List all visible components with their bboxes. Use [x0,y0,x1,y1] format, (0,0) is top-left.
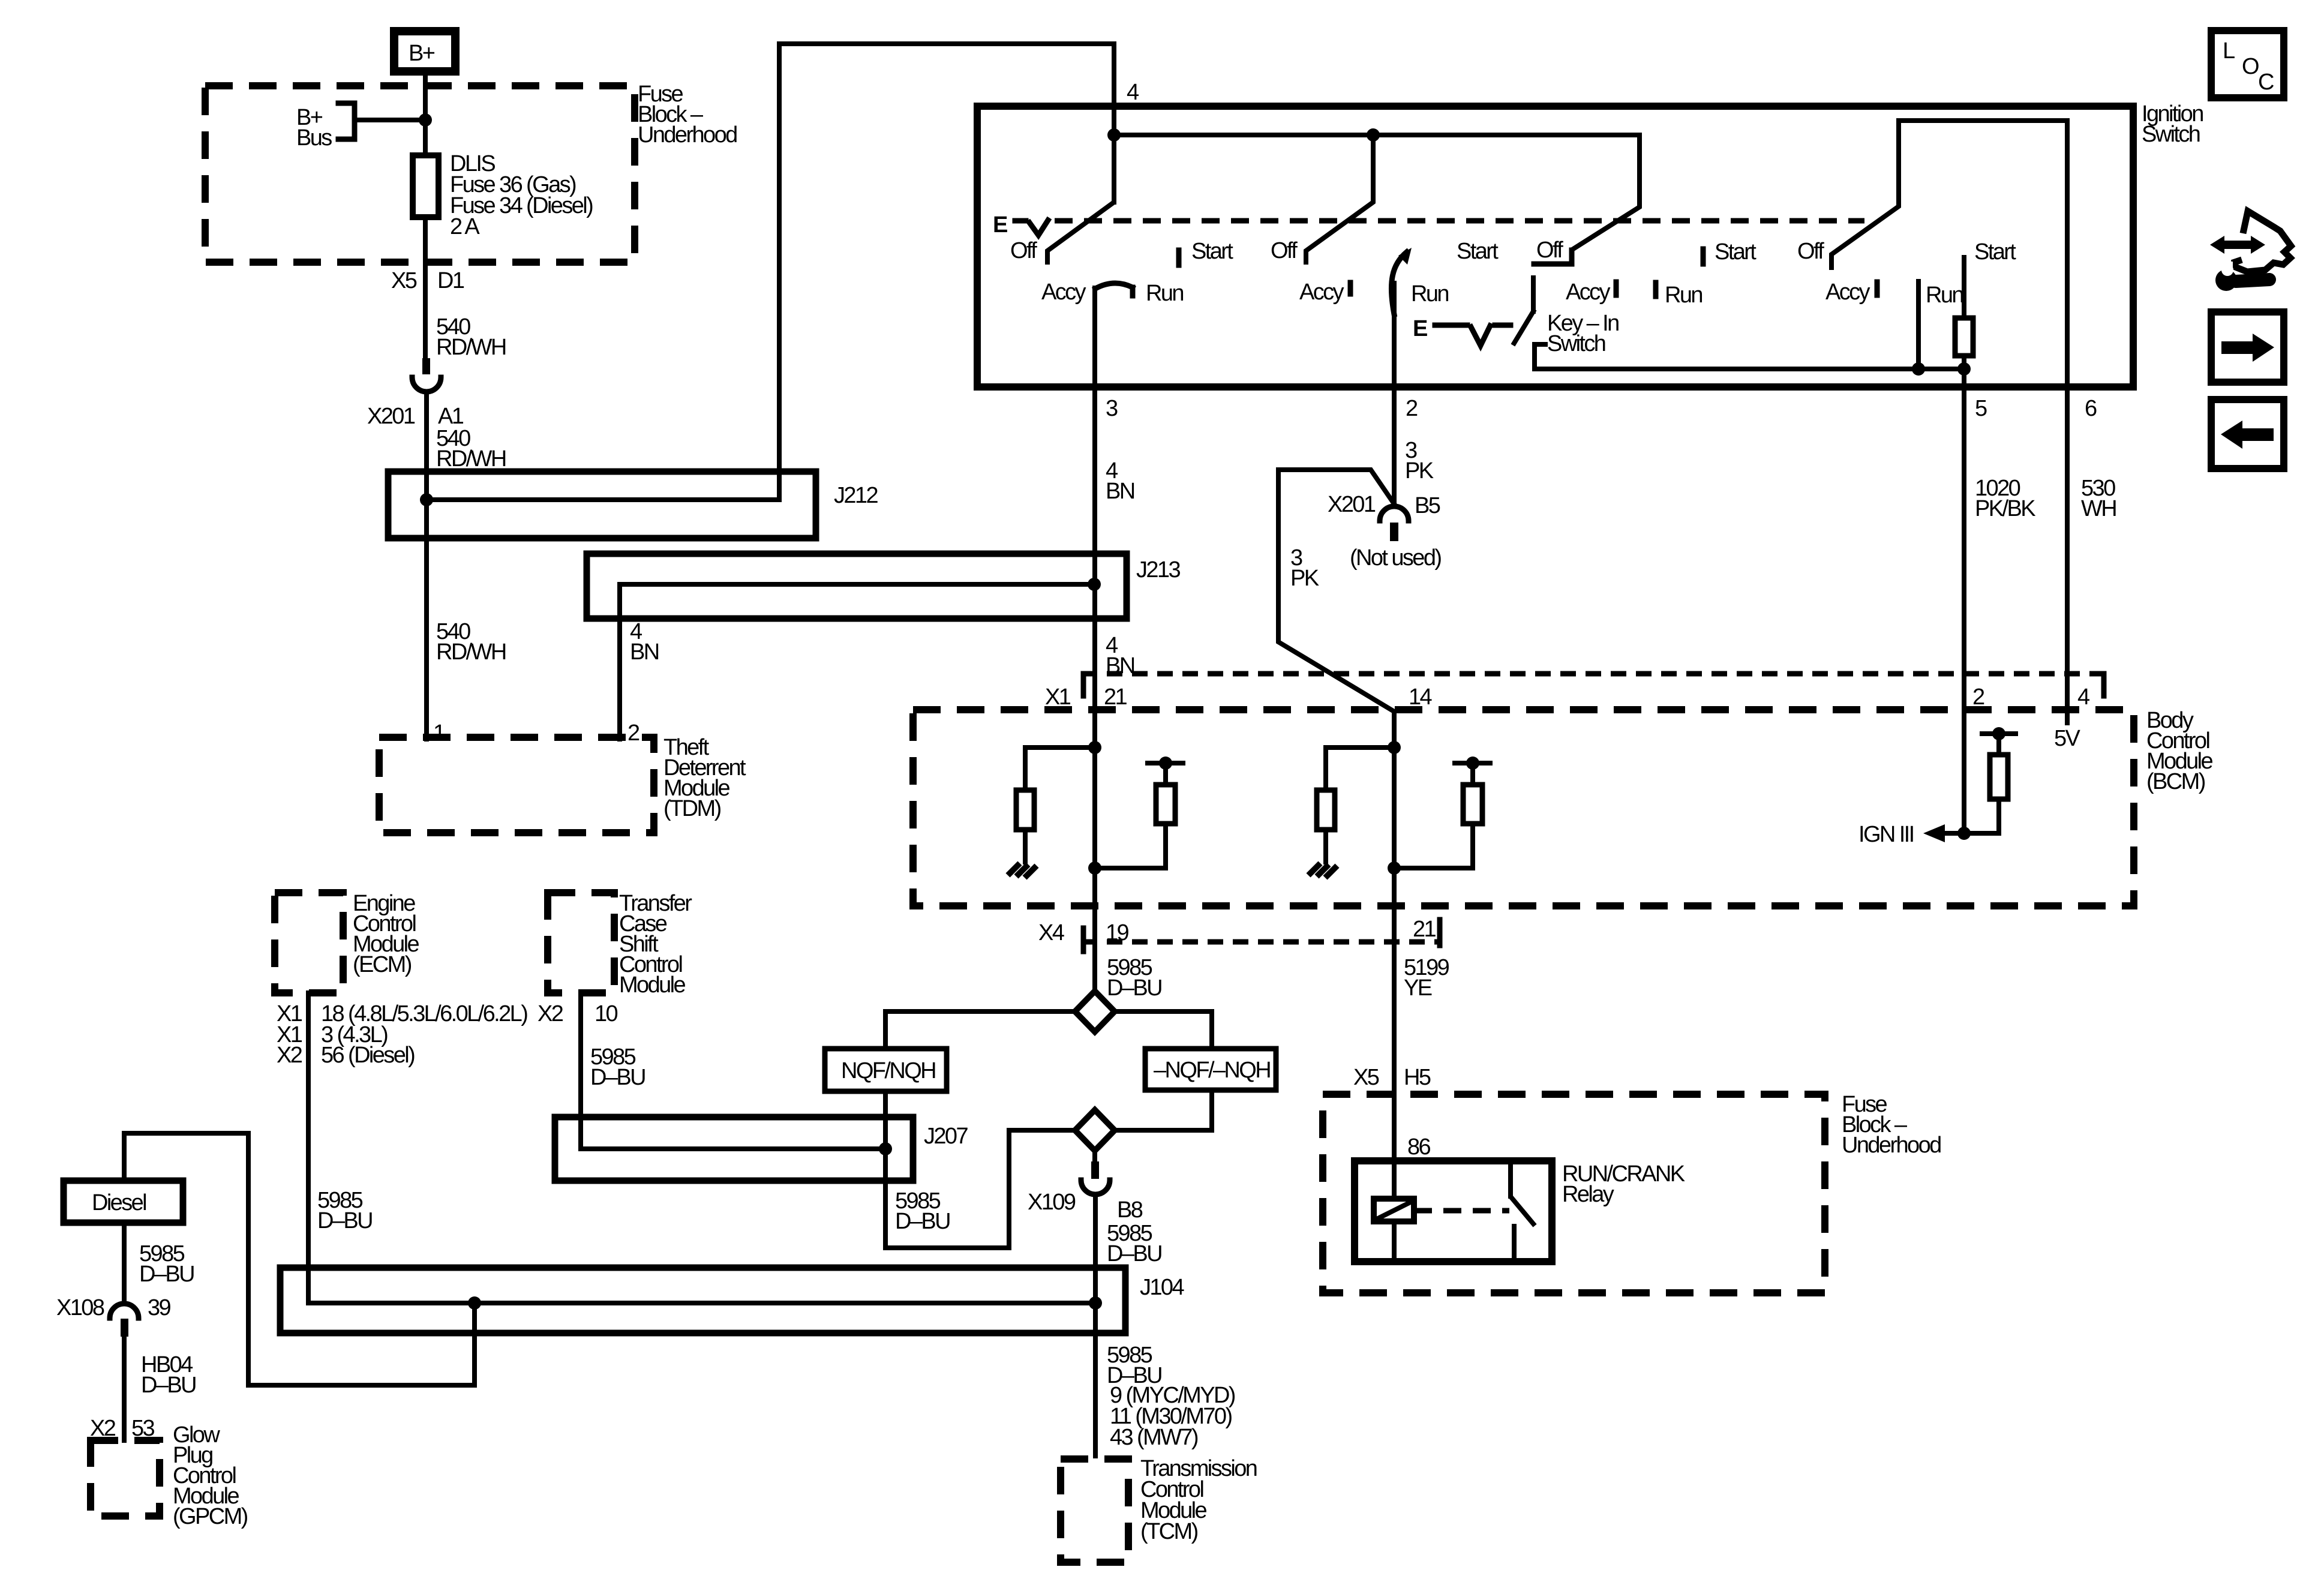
transmission control module TCM box (dashed) [1061,1456,1257,1562]
bank3 labels [1536,238,1756,308]
svg-text:Off: Off [1797,239,1824,264]
splice pack J212 [388,472,878,538]
wire resistor to junction [1962,356,1966,369]
wire diamond2 down to X109 [1092,1151,1097,1161]
svg-text:Off: Off [1010,238,1037,263]
switch bank 3 wiper [1574,135,1640,248]
node run junction [1912,362,1925,376]
svg-text:1: 1 [433,721,445,746]
wire label 540 RD/WH [436,314,506,360]
splice pack J207 [555,1117,968,1181]
internal rail bar (BCM 21) [1148,761,1183,766]
svg-text:3: 3 [1106,396,1118,421]
bank3 Accy contact tick [1614,282,1619,295]
bank3 Run contact tick [1653,283,1659,296]
wire to pull-down resistor [1025,748,1095,790]
label Fuse Block - Underhood [638,82,737,148]
TCM pin labels [1110,1383,1235,1450]
svg-text:E: E [993,212,1007,238]
node rail junction [1159,757,1172,770]
node IGN III junction [1957,827,1971,840]
svg-text:IGN III: IGN III [1858,822,1914,847]
svg-text:PK/BK: PK/BK [1975,496,2035,521]
svg-text:B+: B+ [409,41,435,66]
resistor BCM IGN III [1990,755,2008,799]
wire label 1020 PK/BK [1975,476,2035,521]
node J207 junction [879,1142,892,1155]
wire label 5199 YE [1404,955,1449,1001]
svg-text:X108: X108 [56,1295,104,1320]
wire B+ down to fuse [423,75,428,155]
svg-text:Accy: Accy [1566,280,1611,305]
ignition switch box [977,101,2203,387]
svg-text:2: 2 [627,721,639,746]
svg-text:H5: H5 [1404,1065,1431,1090]
switch bank 2 wiper [1306,135,1373,262]
wire resistor to lower junction [1095,824,1166,868]
bank1 labels [1010,238,1233,306]
wire label 3 PK [1405,438,1434,484]
resistor BCM 21 pull-down [1016,790,1034,830]
mech link E bank1 [993,212,1864,238]
wire label 5985 D-BU (X4-19) [1107,955,1161,1001]
svg-text:X5: X5 [1353,1065,1379,1090]
svg-text:Relay: Relay [1562,1182,1614,1207]
svg-text:Switch: Switch [1547,331,1605,356]
node feed bank2 [1367,128,1380,142]
pin X5 D1 [391,268,464,293]
node BCM 21 upper junction [1088,741,1101,754]
pin labels X1 21 14 2 4 [1045,685,2090,710]
internal rail bar (BCM 14) [1455,761,1490,766]
wire rail to resistor [1163,763,1168,785]
svg-text:PK: PK [1405,458,1434,484]
connector line X1 (dotted) [1082,674,2104,696]
svg-text:(TDM): (TDM) [663,796,721,821]
bank4 Accy contact tick [1875,282,1880,295]
svg-text:RD/WH: RD/WH [436,446,506,472]
wire resistor to ground [1323,830,1328,862]
fuse block underhood box 2 (dashed) [1323,1094,1825,1293]
wire Diesel tag to J104 bus [124,1133,475,1385]
svg-text:Underhood: Underhood [638,122,737,148]
connector line X4 (dotted) [1082,920,1440,951]
svg-text:14: 14 [1409,685,1433,710]
svg-text:21: 21 [1413,917,1436,942]
NQF/NQH tag box [825,1049,947,1091]
node B+ bus junction [419,113,432,127]
svg-text:YE: YE [1404,975,1432,1001]
svg-text:Diesel: Diesel [92,1190,146,1215]
B+ terminal box [394,31,455,71]
pin labels X2 10 [538,1001,618,1026]
splice pack J104 [280,1268,1184,1333]
svg-text:D–BU: D–BU [1107,1241,1161,1266]
wire label 5985 D-BU (diesel) [139,1241,194,1287]
wire -NQF/-NQH down to diamond 2 [1116,1090,1212,1130]
wire label 3 PK (branch) [1290,545,1319,591]
splice pack J213 [587,554,1180,619]
svg-text:Start: Start [1457,239,1499,264]
svg-text:5: 5 [1975,396,1987,421]
svg-text:X201: X201 [1328,492,1376,517]
svg-text:Bus: Bus [296,125,332,151]
ground (BCM 21) [1008,863,1037,878]
fuse block underhood box (dashed) [205,86,635,262]
svg-text:Underhood: Underhood [1842,1133,1941,1158]
svg-text:X1: X1 [1045,685,1071,710]
svg-text:(ECM): (ECM) [353,952,412,977]
pin labels X4 19 21 [1038,917,1436,945]
svg-text:4: 4 [2077,685,2090,710]
wire rail to resistor [1996,734,2001,755]
pin labels X2 53 [90,1416,155,1441]
splice diamond 2 [1075,1110,1115,1151]
bank2 Accy contact tick [1348,283,1353,294]
svg-text:Start: Start [1191,239,1233,264]
node J212 junction [420,493,433,506]
node rail junction [1466,757,1479,770]
svg-text:5V: 5V [2054,726,2081,751]
bank2 Run-Start curved arrow [1391,248,1412,314]
node BCM 14 lower junction [1388,861,1401,875]
node rail junction [1992,727,2005,740]
pin labels X5 H5 [1353,1065,1431,1090]
bank4 Run contact wire [1916,281,1921,369]
svg-text:X109: X109 [1028,1190,1076,1215]
svg-text:A1: A1 [438,404,464,429]
svg-text:Run: Run [1411,281,1448,307]
svg-text:NQF/NQH: NQF/NQH [841,1058,935,1083]
wire label 5985 D-BU (TCM) [1107,1343,1161,1388]
svg-text:L: L [2223,38,2235,64]
svg-text:D–BU: D–BU [590,1065,645,1090]
svg-text:10: 10 [594,1001,618,1026]
svg-text:X2: X2 [277,1043,302,1068]
transfer case module wire [578,993,583,1149]
node J104 TCM junction [1089,1296,1102,1310]
node start junction [1957,362,1971,376]
svg-text:B8: B8 [1117,1197,1143,1223]
svg-text:2: 2 [1406,396,1418,421]
wire resistor to lower junction [1394,824,1473,868]
node BCM 14 upper junction [1388,741,1401,754]
wire label 5985 D-BU (ECM) [317,1188,372,1233]
bank1 Start contact tick [1176,250,1182,265]
switch bank 4 pole wire from pin 6 [1899,121,2067,723]
svg-text:D–BU: D–BU [139,1262,194,1287]
svg-text:RD/WH: RD/WH [436,335,506,360]
svg-text:Run: Run [1665,283,1702,308]
svg-text:86: 86 [1407,1134,1431,1160]
svg-text:(Not used): (Not used) [1350,545,1441,571]
svg-text:Run: Run [1926,283,1963,308]
body control module BCM box (dashed) [913,708,2212,906]
arrow left box [2211,400,2284,469]
wire X108 down to GPCM [122,1337,127,1440]
internal rail bar (BCM 2) [1982,731,2016,736]
RUN/CRANK relay box [1355,1161,1685,1262]
svg-text:J213: J213 [1136,557,1180,583]
wire 3 PK branch to BCM pin 14 [1278,470,1394,712]
svg-text:B5: B5 [1415,493,1440,518]
svg-text:2: 2 [1972,685,1984,710]
wire diamond1 right to -NQF/-NQH [1115,1011,1212,1049]
wire pin 5 down to BCM [1962,369,1966,833]
wire X109 down to J104 [1093,1194,1098,1333]
svg-text:X2: X2 [538,1001,563,1026]
wire J207 bus [581,1146,885,1151]
ground (BCM 14) [1308,863,1337,878]
hotlink hand icon [2210,211,2291,291]
wire label 4 BN (above J213) [1106,458,1134,504]
bank4 wiper [1831,121,1899,268]
node feed bank1 [1107,128,1121,142]
wire resistor to ground [1023,830,1028,862]
wire label 5985 D-BU (transfer) [590,1044,645,1090]
ECM wire down to J104 [306,993,311,1303]
svg-text:RD/WH: RD/WH [436,640,506,665]
svg-text:J104: J104 [1140,1275,1184,1300]
wire label 4 BN (TDM pin2 wire) [630,619,659,665]
wire J104 down to TCM [1093,1333,1098,1456]
transfer case shift control module box (dashed) [548,891,692,998]
resistor ignition start [1955,318,1973,356]
connector X109 B8 [1028,1161,1143,1223]
svg-text:BN: BN [630,640,659,665]
svg-text:J212: J212 [834,483,878,508]
connector X201 A1 [367,358,464,429]
svg-text:4: 4 [1127,80,1139,105]
svg-text:(BCM): (BCM) [2146,769,2205,794]
svg-text:O: O [2242,54,2259,79]
svg-text:C: C [2258,70,2274,95]
relay mech link dashes [1414,1208,1509,1214]
svg-text:E: E [1413,316,1427,341]
svg-text:Switch: Switch [2142,122,2200,147]
svg-text:(TCM): (TCM) [1140,1519,1198,1544]
wire bank1 Accy output to BCM X1-21 [1092,288,1097,991]
fuse DLIS [413,151,593,239]
svg-text:–NQF/–NQH: –NQF/–NQH [1154,1058,1270,1083]
wire label 4 BN (below J213) [1106,633,1134,679]
wire fuse to X201 A1 [423,217,428,358]
wire label 5985 D-BU (J207 out) [895,1188,950,1234]
svg-text:X4: X4 [1038,920,1065,945]
svg-text:X201: X201 [367,404,415,429]
svg-text:(GPCM): (GPCM) [173,1504,248,1529]
svg-text:Accy: Accy [1825,280,1870,305]
svg-text:X5: X5 [391,268,417,293]
engine control module ECM box (dashed) [275,891,419,993]
resistor BCM 14 pull-up [1463,785,1482,824]
wire BCM pin 14 down to relay coil [1392,712,1397,1199]
wire J212 bus to ignition feed [427,44,1114,500]
svg-text:WH: WH [2081,496,2116,521]
connector X108 39 [56,1295,171,1337]
relay switch contact [1511,1161,1533,1262]
connector X201 B5 (not used) [1328,492,1441,571]
resistor BCM 21 pull-up [1156,785,1175,824]
bank1 Accy-Run bridge arc [1095,283,1133,296]
wire label 530 WH [2081,476,2116,521]
node J213 junction [1088,578,1101,591]
LOC box [2211,31,2284,98]
-NQF/-NQH tag box [1145,1049,1276,1090]
IGN III arrow [1858,822,1964,847]
wire key-in to run/start junction [1535,367,1964,371]
svg-text:BN: BN [1106,479,1134,504]
theft deterrent module TDM (dashed) [379,735,746,833]
svg-text:Off: Off [1536,238,1563,263]
wire label HB04 D-BU [141,1352,196,1398]
key-in switch [1413,278,1619,369]
ECM pin labels [277,1001,527,1068]
svg-text:D1: D1 [437,268,464,293]
wire Diesel down to X108 [122,1223,127,1303]
splice diamond 1 [1075,991,1115,1032]
svg-text:43 (MW7): 43 (MW7) [1110,1425,1198,1450]
svg-text:PK: PK [1290,566,1319,591]
wire resistor to junction [1964,799,1999,833]
wire label 540 RD/WH [436,426,506,472]
svg-text:D–BU: D–BU [141,1373,196,1398]
B+ bus bracket and wire [296,103,425,151]
bank4 Start contact wire [1962,257,1966,318]
svg-text:56 (Diesel): 56 (Diesel) [321,1043,415,1068]
wire rail to resistor [1470,763,1475,785]
svg-text:Accy: Accy [1041,280,1086,305]
svg-text:19: 19 [1106,920,1129,945]
wire J104 bus [308,1301,1095,1305]
arrow right box [2211,312,2284,382]
wire to pull-down resistor [1326,748,1394,790]
bank4 labels [1797,239,2016,308]
svg-text:D–BU: D–BU [895,1209,950,1234]
svg-text:Module: Module [619,972,685,998]
wire label 5985 D-BU (B8) [1107,1221,1161,1266]
svg-text:Accy: Accy [1299,280,1344,305]
wire NQF/NQH down through J207 [885,1091,1075,1248]
wire ignition feed bus [1114,133,1640,137]
svg-text:39: 39 [148,1295,171,1320]
svg-text:2 A: 2 A [450,214,480,239]
svg-text:6: 6 [2085,396,2097,421]
bank3 Start contact tick [1701,249,1706,264]
svg-text:Off: Off [1271,238,1298,263]
svg-text:J207: J207 [924,1124,968,1149]
svg-text:D–BU: D–BU [317,1208,372,1233]
svg-text:D–BU: D–BU [1107,975,1161,1001]
wire coil to relay box bottom [1392,1221,1397,1262]
glow plug control module GPCM box (dashed) [91,1422,248,1529]
wire X201 A1 down through J212 to TDM pin 1 [424,392,429,739]
resistor BCM 14 pull-down [1317,790,1335,830]
node J104 diesel junction [468,1296,481,1310]
wire diamond1 left to NQF/NQH [885,1011,1075,1049]
wire bank2 Run output pin 2 [1392,283,1397,504]
bank3 Off contact [1534,250,1572,264]
svg-text:Run: Run [1146,281,1183,306]
node BCM 21 lower junction [1088,861,1101,875]
relay coil [1374,1199,1414,1221]
svg-text:Start: Start [1974,239,2016,265]
label Fuse Block - Underhood 2 [1842,1092,1941,1158]
wire label 540 RD/WH [436,619,506,665]
bank2 labels [1271,238,1499,307]
Diesel tag box [64,1181,183,1223]
svg-text:21: 21 [1104,685,1127,710]
switch bank 1 wiper [1047,135,1114,262]
wire J213 bus to TDM pin 2 [620,584,1094,739]
svg-text:Start: Start [1715,239,1756,265]
